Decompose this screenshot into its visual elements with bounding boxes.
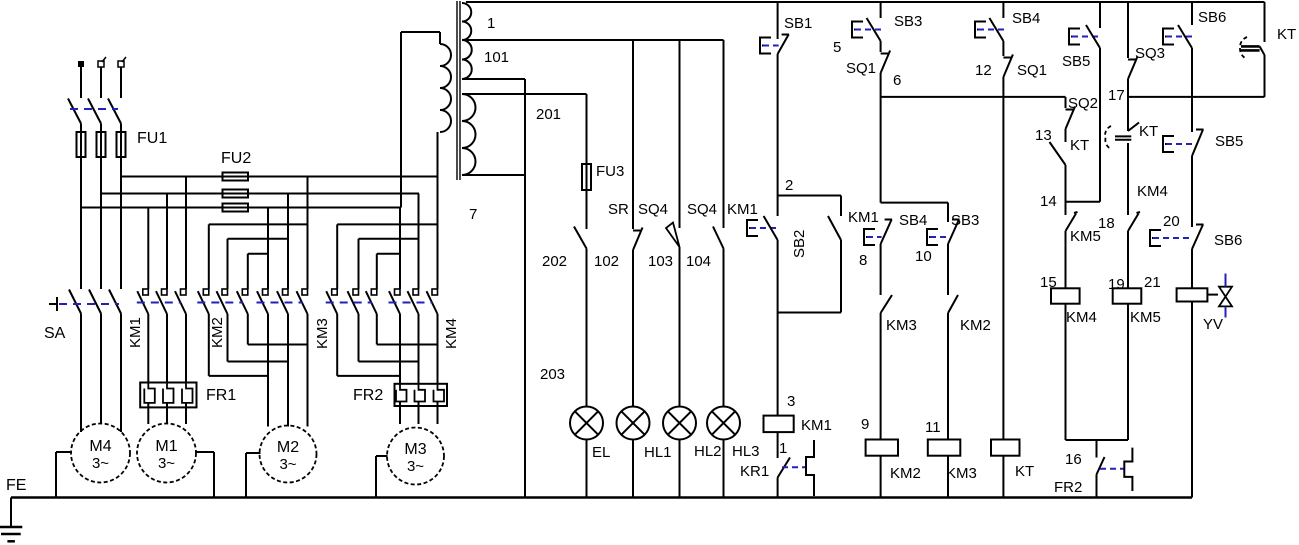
svg-text:201: 201 [536, 106, 561, 123]
svg-text:M1: M1 [155, 438, 177, 455]
svg-text:FR2: FR2 [1054, 479, 1082, 496]
svg-text:KM2: KM2 [209, 317, 226, 348]
svg-text:KM5: KM5 [1070, 228, 1101, 245]
svg-text:SB4: SB4 [899, 212, 927, 229]
svg-text:104: 104 [686, 253, 711, 270]
svg-text:3~: 3~ [407, 458, 424, 475]
svg-text:103: 103 [648, 253, 673, 270]
svg-text:KM1: KM1 [127, 317, 144, 348]
svg-text:202: 202 [542, 253, 567, 270]
svg-text:3: 3 [787, 393, 795, 410]
svg-text:KM3: KM3 [946, 465, 977, 482]
svg-text:7: 7 [469, 206, 477, 223]
svg-text:KM5: KM5 [1130, 309, 1161, 326]
svg-text:HL3: HL3 [732, 443, 760, 460]
svg-text:KM1: KM1 [801, 417, 832, 434]
svg-text:KT: KT [1139, 123, 1158, 140]
svg-text:FR2: FR2 [353, 387, 383, 404]
svg-text:KM4: KM4 [1137, 183, 1168, 200]
svg-text:11: 11 [925, 419, 941, 436]
svg-text:EL: EL [592, 444, 610, 461]
svg-text:SB3: SB3 [951, 212, 979, 229]
svg-text:KM1: KM1 [727, 201, 758, 218]
svg-text:102: 102 [594, 253, 619, 270]
svg-text:SQ4: SQ4 [638, 201, 668, 218]
svg-text:16: 16 [1065, 451, 1082, 468]
svg-text:3~: 3~ [92, 455, 109, 472]
svg-text:KM4: KM4 [443, 318, 460, 349]
svg-text:SB1: SB1 [784, 15, 812, 32]
svg-text:FU3: FU3 [596, 163, 624, 180]
svg-text:KR1: KR1 [740, 463, 769, 480]
svg-text:2: 2 [785, 177, 793, 194]
svg-text:KT: KT [1070, 137, 1089, 154]
svg-text:9: 9 [861, 416, 869, 433]
svg-text:SB5: SB5 [1062, 53, 1090, 70]
svg-text:3~: 3~ [279, 456, 296, 473]
svg-text:5: 5 [833, 39, 841, 56]
svg-text:14: 14 [1040, 193, 1057, 210]
svg-text:SQ1: SQ1 [1017, 62, 1047, 79]
svg-text:SA: SA [44, 325, 66, 342]
svg-text:SB6: SB6 [1214, 232, 1242, 249]
svg-text:8: 8 [859, 252, 867, 269]
svg-text:KM3: KM3 [886, 317, 917, 334]
svg-text:KM2: KM2 [890, 465, 921, 482]
svg-text:SQ3: SQ3 [1135, 45, 1165, 62]
svg-text:KT: KT [1015, 463, 1034, 480]
svg-text:KM2: KM2 [960, 317, 991, 334]
svg-text:10: 10 [915, 248, 932, 265]
svg-text:M2: M2 [277, 439, 299, 456]
svg-text:SB5: SB5 [1215, 133, 1243, 150]
svg-text:M4: M4 [89, 438, 111, 455]
svg-text:HL2: HL2 [694, 443, 722, 460]
svg-text:KT: KT [1277, 26, 1296, 43]
svg-text:1: 1 [779, 440, 787, 457]
svg-text:17: 17 [1108, 87, 1125, 104]
svg-text:203: 203 [540, 366, 565, 383]
svg-text:6: 6 [893, 72, 901, 89]
svg-text:SR: SR [608, 201, 629, 218]
svg-text:13: 13 [1035, 127, 1052, 144]
svg-text:3~: 3~ [158, 455, 175, 472]
svg-text:KM1: KM1 [848, 209, 879, 226]
svg-text:KM4: KM4 [1066, 309, 1097, 326]
svg-text:SQ4: SQ4 [687, 201, 717, 218]
svg-text:SB3: SB3 [894, 13, 922, 30]
svg-text:HL1: HL1 [644, 444, 672, 461]
svg-text:KM3: KM3 [314, 318, 331, 349]
svg-text:YV: YV [1203, 316, 1223, 333]
svg-text:FE: FE [6, 477, 26, 494]
svg-text:SB2: SB2 [791, 230, 808, 258]
svg-text:SB4: SB4 [1012, 10, 1040, 27]
svg-text:SQ1: SQ1 [846, 60, 876, 77]
svg-text:12: 12 [975, 62, 992, 79]
svg-text:101: 101 [484, 49, 509, 66]
svg-text:18: 18 [1098, 215, 1115, 232]
svg-text:19: 19 [1108, 276, 1125, 293]
svg-text:FR1: FR1 [206, 387, 236, 404]
svg-text:20: 20 [1163, 213, 1180, 230]
svg-text:FU2: FU2 [221, 150, 251, 167]
svg-text:1: 1 [487, 15, 495, 32]
svg-text:M3: M3 [404, 441, 426, 458]
svg-text:FU1: FU1 [137, 130, 167, 147]
svg-text:21: 21 [1144, 274, 1161, 291]
svg-text:SB6: SB6 [1198, 9, 1226, 26]
